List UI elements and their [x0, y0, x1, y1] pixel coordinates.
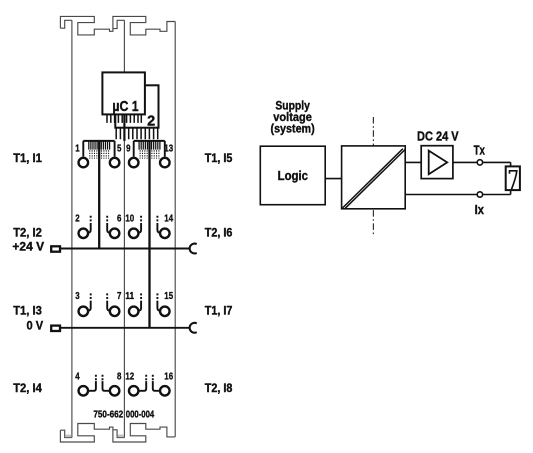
svg-text:9: 9	[126, 144, 131, 155]
svg-text:750-662: 750-662	[93, 410, 123, 421]
svg-text:11: 11	[125, 291, 134, 302]
svg-text:DC 24 V: DC 24 V	[417, 129, 459, 143]
svg-text:6: 6	[117, 214, 122, 225]
svg-text:Logic: Logic	[278, 169, 308, 183]
svg-text:13: 13	[164, 144, 173, 155]
svg-text:T1, I1: T1, I1	[13, 153, 42, 165]
svg-text:16: 16	[164, 371, 173, 382]
svg-text:15: 15	[164, 291, 173, 302]
svg-text:4: 4	[75, 371, 80, 382]
svg-text:+24 V: +24 V	[12, 241, 44, 253]
svg-text:T1, I3: T1, I3	[13, 305, 42, 317]
svg-text:0 V: 0 V	[27, 321, 44, 333]
svg-text:Tx: Tx	[474, 143, 485, 157]
svg-text:voltage: voltage	[273, 112, 312, 124]
svg-text:2: 2	[147, 114, 155, 130]
svg-text:8: 8	[117, 371, 122, 382]
svg-text:(system): (system)	[271, 124, 315, 136]
svg-text:14: 14	[164, 214, 173, 225]
svg-text:T2, I6: T2, I6	[205, 228, 233, 240]
svg-text:7: 7	[117, 291, 122, 302]
svg-text:10: 10	[125, 214, 134, 225]
svg-text:T1, I7: T1, I7	[205, 305, 233, 317]
svg-text:T2, I8: T2, I8	[205, 383, 233, 395]
svg-text:T1, I5: T1, I5	[205, 153, 233, 165]
svg-text:T2, I2: T2, I2	[13, 228, 42, 240]
svg-text:12: 12	[125, 371, 134, 382]
svg-text:T2, I4: T2, I4	[13, 383, 42, 395]
svg-text:Ix: Ix	[475, 203, 484, 217]
svg-text:5: 5	[117, 144, 122, 155]
svg-text:Supply: Supply	[275, 101, 310, 113]
svg-text:3: 3	[75, 291, 80, 302]
svg-text:2: 2	[75, 214, 80, 225]
svg-text:000-004: 000-004	[126, 410, 155, 421]
svg-text:µC 1: µC 1	[112, 99, 138, 115]
svg-text:1: 1	[75, 144, 80, 155]
